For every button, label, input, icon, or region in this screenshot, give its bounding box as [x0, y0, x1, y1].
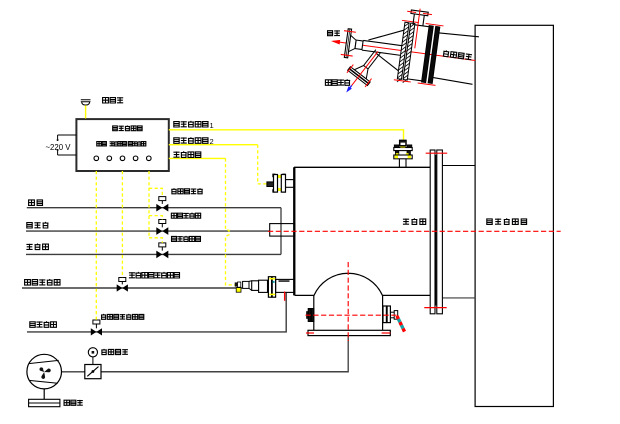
column tick top [426, 152, 448, 154]
label 废酸 [328, 31, 333, 36]
220V wires [58, 134, 77, 136]
label 长明灯燃气 [25, 280, 31, 286]
hatched flange ticks [402, 20, 419, 22]
gun hatched flange pair [397, 22, 409, 79]
长明灯燃气 line [22, 287, 242, 289]
label 燃烧器 [403, 219, 409, 225]
label 酸性气 [26, 244, 32, 250]
fuel nozzle into burner [270, 224, 295, 237]
gun top tee stub [413, 14, 414, 25]
butterfly valve 电动蝶阀 [85, 365, 101, 379]
label 点火电缆 [173, 152, 179, 158]
gun spool [415, 25, 429, 27]
label 燃气电磁阀 [171, 213, 176, 218]
blower pedestal [43, 389, 45, 399]
dome walls [313, 295, 315, 330]
atomizing air branch [364, 48, 376, 67]
flame detector FD2 on burner left wall [286, 179, 295, 181]
wire 火焰检测器2 horizontal [169, 144, 258, 146]
blower fan 鼓风机 [27, 354, 62, 389]
label 电动蝶阀 [101, 349, 107, 355]
label 燃料气 [27, 223, 32, 229]
manifold right edge [280, 208, 282, 255]
wire 点火电缆 drop [226, 158, 237, 285]
label 熄火保护 [128, 142, 132, 146]
flange ticks red [344, 31, 356, 33]
gun inlet flange [344, 29, 351, 58]
pilot outlet pipe [276, 279, 295, 292]
dome right fitting [383, 306, 386, 323]
label 长明灯燃气电磁阀 [129, 272, 135, 278]
label 火焰检测器1 [174, 122, 179, 128]
main burner centerline [268, 230, 561, 232]
pilot igniter spark plug [235, 282, 238, 286]
label 报警器 [103, 98, 109, 104]
label 点火空气电磁阀 [101, 314, 106, 319]
wire 火焰检测器1 [169, 130, 404, 140]
pilot flange pair [268, 277, 271, 298]
indicator lamps [94, 156, 99, 161]
dome vertical centerline [347, 262, 349, 341]
tee red centerline [415, 9, 420, 49]
酸性气 line [26, 253, 281, 255]
label 点火空气 [30, 322, 35, 328]
label 雾化空气 [325, 80, 331, 86]
wire 火焰检测器2 drop [258, 145, 267, 184]
igniter rod striped [397, 316, 399, 319]
waste acid spray gun assembly 废酸喷枪 [324, 0, 481, 109]
wire alarm [85, 105, 87, 118]
pilot air connection red tick [284, 292, 286, 301]
dome horizontal centerline [306, 314, 399, 316]
duct top wire [443, 165, 476, 167]
dome base drain line [101, 336, 348, 372]
branch red centerline + blue arrow 雾化空气 [352, 49, 378, 89]
label 废酸裂解炉 [487, 219, 492, 225]
wire lamp3 to 长明灯燃气电磁阀 [121, 171, 123, 278]
svg-text:1: 1 [210, 121, 214, 130]
pilot body [249, 280, 252, 283]
wire lamp1 to 点火空气电磁阀 [95, 171, 97, 320]
label 液硫 [29, 200, 35, 206]
duct bottom wire [443, 297, 476, 299]
wire 点火电缆 horizontal [169, 157, 226, 159]
svg-text:2: 2 [210, 137, 214, 146]
label 点火 [97, 142, 102, 146]
label 液硫电磁阀 [171, 188, 176, 194]
gun expanding cone [368, 26, 403, 45]
label 火焰检测器2 [174, 138, 179, 144]
flame detector FD1 on burner top [398, 159, 400, 168]
column tick bottom [424, 307, 446, 309]
gun red centerline [333, 41, 475, 60]
label 酸气电磁阀 [172, 236, 177, 241]
blower air line [62, 371, 85, 373]
solenoid valve 长明灯燃气电磁阀 [117, 284, 123, 291]
燃料气 line [26, 230, 270, 232]
controller box 燃烧控制器 [76, 119, 168, 171]
furnace 废酸裂解炉 vessel [475, 25, 553, 406]
solenoid valve 液硫电磁阀 [156, 204, 162, 212]
gun rear flange pair [422, 26, 434, 83]
label 鼓风机 [64, 400, 69, 405]
gun reducer cone [349, 35, 357, 52]
svg-text:~220 V: ~220 V [46, 143, 72, 152]
gun collar [355, 40, 363, 49]
burner box outline [295, 167, 431, 295]
label 火焰检测 [110, 141, 115, 146]
rear flange ticks [426, 24, 444, 26]
label 燃烧控制器 [113, 126, 118, 131]
dome arc [314, 273, 383, 296]
gun barrel [363, 40, 402, 45]
dome left sight fitting [308, 309, 311, 322]
air line after valve [101, 371, 348, 373]
gun nose barrel [439, 31, 479, 38]
blower base [29, 399, 60, 406]
tee flange ticks [407, 11, 416, 12]
液硫 line [27, 207, 281, 209]
wire branch to 液硫电磁阀 [149, 188, 162, 196]
dome base plate [308, 330, 390, 335]
base plate tick left [306, 332, 314, 334]
废酸 inlet arrow [331, 39, 341, 45]
solenoid valve 点火空气电磁阀 [91, 328, 97, 335]
点火空气 line [27, 292, 286, 332]
wire branch to 燃气电磁阀 [149, 216, 162, 220]
branch flange ticks [347, 64, 353, 74]
base plate tick right [382, 332, 391, 334]
alarm bell [81, 100, 91, 105]
solenoid valve 酸气电磁阀 [156, 251, 162, 259]
burner flange column [430, 150, 435, 314]
wire branch to 酸气电磁阀 [149, 238, 162, 243]
solenoid valve 燃气电磁阀 [156, 227, 162, 235]
label 废酸喷枪 [443, 50, 472, 60]
wire lamp5 drop [148, 171, 150, 238]
